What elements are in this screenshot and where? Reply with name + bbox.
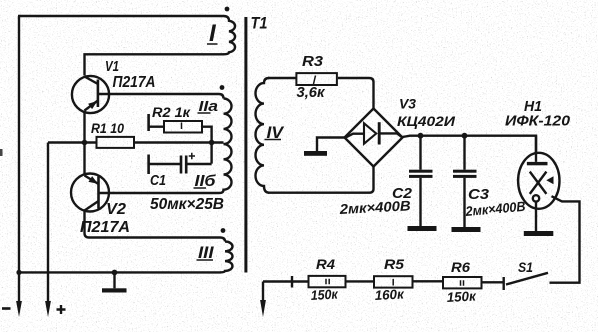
transformer T1 winding III bbox=[220, 242, 233, 273]
wire C2 bottom lead bbox=[419, 178, 421, 226]
wire R6 to switch bbox=[482, 281, 504, 283]
rectifier bridge V3 diamond bbox=[345, 109, 403, 167]
svg-text:Н1: Н1 bbox=[524, 98, 542, 115]
capacitor C1 bbox=[181, 156, 186, 174]
capacitor C2 bbox=[409, 170, 433, 173]
wire bridge left to ground bbox=[317, 138, 345, 152]
resistor R4 bbox=[309, 276, 346, 287]
label IIb underline bbox=[194, 187, 207, 189]
wire C2 top lead bbox=[419, 136, 421, 170]
wire V1 base to winding IIa top bbox=[98, 94, 224, 99]
wire R5-R6 bbox=[412, 280, 443, 282]
transformer T1 winding IIb bbox=[219, 144, 232, 193]
wire V2 collector to winding III bbox=[85, 211, 226, 242]
wire R4-R5 bbox=[346, 280, 373, 282]
svg-text:V1: V1 bbox=[105, 58, 119, 75]
wire lamp trigger to S1 bbox=[550, 196, 580, 283]
wire bottom row left bbox=[263, 280, 309, 282]
polarity dot winding I bbox=[225, 7, 230, 12]
transistor V2 base lead bbox=[99, 192, 219, 194]
wire IV bottom to bridge bottom bbox=[268, 167, 374, 193]
C2 chassis bar bbox=[408, 226, 437, 231]
svg-text:50мк×25В: 50мк×25В bbox=[150, 196, 224, 213]
transistor V2 emitter slant bbox=[85, 176, 99, 185]
svg-text:C3: C3 bbox=[468, 186, 490, 203]
lamp top electrode bar bbox=[527, 162, 548, 165]
svg-text:3,6к: 3,6к bbox=[297, 85, 326, 101]
capacitor C3 bbox=[453, 170, 477, 173]
node R2 left stub bbox=[147, 114, 150, 131]
resistor R6 marks bbox=[461, 280, 464, 286]
wire R2 right lead down to C1 bbox=[202, 127, 212, 164]
resistor R6 bbox=[443, 277, 482, 288]
bottom row terminal arrow bbox=[262, 282, 264, 304]
transistor V2 collector slant bbox=[85, 201, 99, 211]
wire emitter link V1-V2 bbox=[83, 111, 85, 176]
transistor V1 emitter arrow bbox=[88, 101, 97, 109]
wire C1 left lead bbox=[149, 163, 180, 165]
transistor V1 base bar bbox=[97, 80, 100, 108]
transistor V1 emitter slant bbox=[85, 101, 98, 111]
svg-text:ИФК-120: ИФК-120 bbox=[505, 114, 570, 130]
resistor R2 bbox=[164, 121, 202, 133]
lamp chassis bar bbox=[524, 231, 554, 236]
svg-text:П217А: П217А bbox=[80, 219, 130, 236]
node C1 left stub bbox=[147, 155, 150, 175]
transistor V1 collector slant bbox=[85, 77, 98, 85]
transistor V2 circle bbox=[71, 174, 109, 212]
wire left supply rail (minus) bbox=[18, 16, 20, 303]
wire R1 left lead bbox=[48, 141, 96, 143]
wire R3 right to bridge top bbox=[338, 78, 374, 109]
junction R2C1 with row bbox=[209, 140, 215, 146]
bridge diode cathode line bbox=[380, 133, 402, 137]
junction ground tap bbox=[112, 270, 118, 276]
junction at left rail bbox=[16, 270, 21, 275]
svg-text:R1 10: R1 10 bbox=[91, 120, 124, 136]
lamp bottom electrode lead bbox=[535, 202, 537, 231]
svg-text:П217А: П217А bbox=[113, 74, 156, 91]
svg-text:R4: R4 bbox=[316, 256, 335, 272]
lamp top electrode lead bbox=[535, 136, 537, 162]
bridge diode anode line bbox=[346, 134, 364, 138]
minus label bbox=[2, 307, 11, 310]
resistor R3 bbox=[296, 73, 337, 85]
resistor R3 marks bbox=[314, 76, 316, 85]
scan mark left edge bbox=[0, 149, 3, 156]
svg-text:III: III bbox=[198, 243, 215, 262]
wire winding I bottom to V1 collector bbox=[85, 54, 225, 75]
svg-text:150к: 150к bbox=[446, 288, 477, 305]
lamp cathode circle bbox=[533, 195, 539, 201]
resistor R5 marks bbox=[392, 279, 394, 286]
wire winding III bottom return bbox=[19, 271, 221, 273]
label IIa underline bbox=[198, 112, 211, 114]
junction C3 bbox=[462, 133, 468, 139]
plus terminal arrow bbox=[45, 301, 51, 317]
wire C1 right lead bbox=[187, 163, 211, 165]
resistor R2 marks bbox=[181, 123, 183, 130]
wire top lead to winding I bbox=[18, 15, 224, 17]
wire bridge output line bbox=[403, 136, 537, 153]
wire ground stub bbox=[113, 273, 115, 289]
svg-text:T1: T1 bbox=[251, 14, 268, 33]
svg-text:КЦ402И: КЦ402И bbox=[397, 113, 456, 129]
terminal tick bbox=[291, 276, 293, 288]
wire R2 left lead bbox=[149, 125, 164, 127]
switch S1 contact bar bbox=[503, 277, 505, 290]
wire C3 top lead bbox=[463, 136, 465, 170]
label III underline bbox=[197, 259, 214, 261]
svg-text:R2 1к: R2 1к bbox=[152, 105, 191, 120]
junction C2 bbox=[418, 133, 424, 139]
plus label bbox=[57, 305, 66, 314]
svg-text:R6: R6 bbox=[451, 259, 470, 275]
ground chassis bar 2 bbox=[304, 151, 327, 156]
C3 chassis bar bbox=[452, 227, 481, 232]
svg-text:150к: 150к bbox=[310, 287, 339, 303]
transformer core bbox=[244, 17, 247, 273]
wire C3 bottom lead bbox=[463, 178, 465, 227]
ground chassis bar bbox=[102, 288, 127, 292]
transistor V2 base bar bbox=[97, 177, 100, 209]
transformer T1 winding IV bbox=[255, 78, 269, 193]
svg-text:S1: S1 bbox=[518, 259, 533, 275]
svg-text:R5: R5 bbox=[384, 256, 404, 272]
transformer T1 winding IIa bbox=[224, 99, 232, 145]
svg-text:160к: 160к bbox=[374, 286, 405, 303]
label IV underline bbox=[265, 139, 282, 141]
svg-text:R3: R3 bbox=[302, 53, 324, 70]
wire R1 right lead to center tap bbox=[134, 141, 224, 143]
resistor R5 bbox=[374, 276, 413, 287]
svg-text:C1: C1 bbox=[150, 173, 166, 189]
resistor R1 bbox=[97, 137, 135, 148]
polarity dot winding III bbox=[221, 228, 226, 233]
C1 plus mark bbox=[189, 153, 195, 159]
bridge diode cathode bar bbox=[378, 122, 381, 144]
svg-text:V3: V3 bbox=[399, 97, 417, 112]
label I underline bbox=[207, 43, 218, 45]
flash lamp H1 envelope bbox=[518, 153, 559, 209]
resistor R4 marks bbox=[326, 279, 329, 284]
lamp discharge X bbox=[530, 172, 547, 194]
svg-text:V2: V2 bbox=[106, 201, 126, 218]
bridge diode triangle bbox=[364, 123, 376, 143]
transistor V2 emitter arrow bbox=[89, 176, 99, 184]
transformer T1 winding I bbox=[224, 16, 236, 54]
lamp trigger arrow bbox=[546, 176, 553, 184]
polarity dot winding IIa bbox=[220, 85, 225, 90]
junction emitters node bbox=[82, 140, 88, 146]
wire IV top to R3 bbox=[268, 77, 296, 79]
minus terminal arrow bbox=[16, 301, 22, 317]
switch S1 lever bbox=[506, 273, 548, 285]
wire R1 row to plus terminal bbox=[47, 143, 49, 304]
transistor V1 circle bbox=[72, 76, 109, 113]
